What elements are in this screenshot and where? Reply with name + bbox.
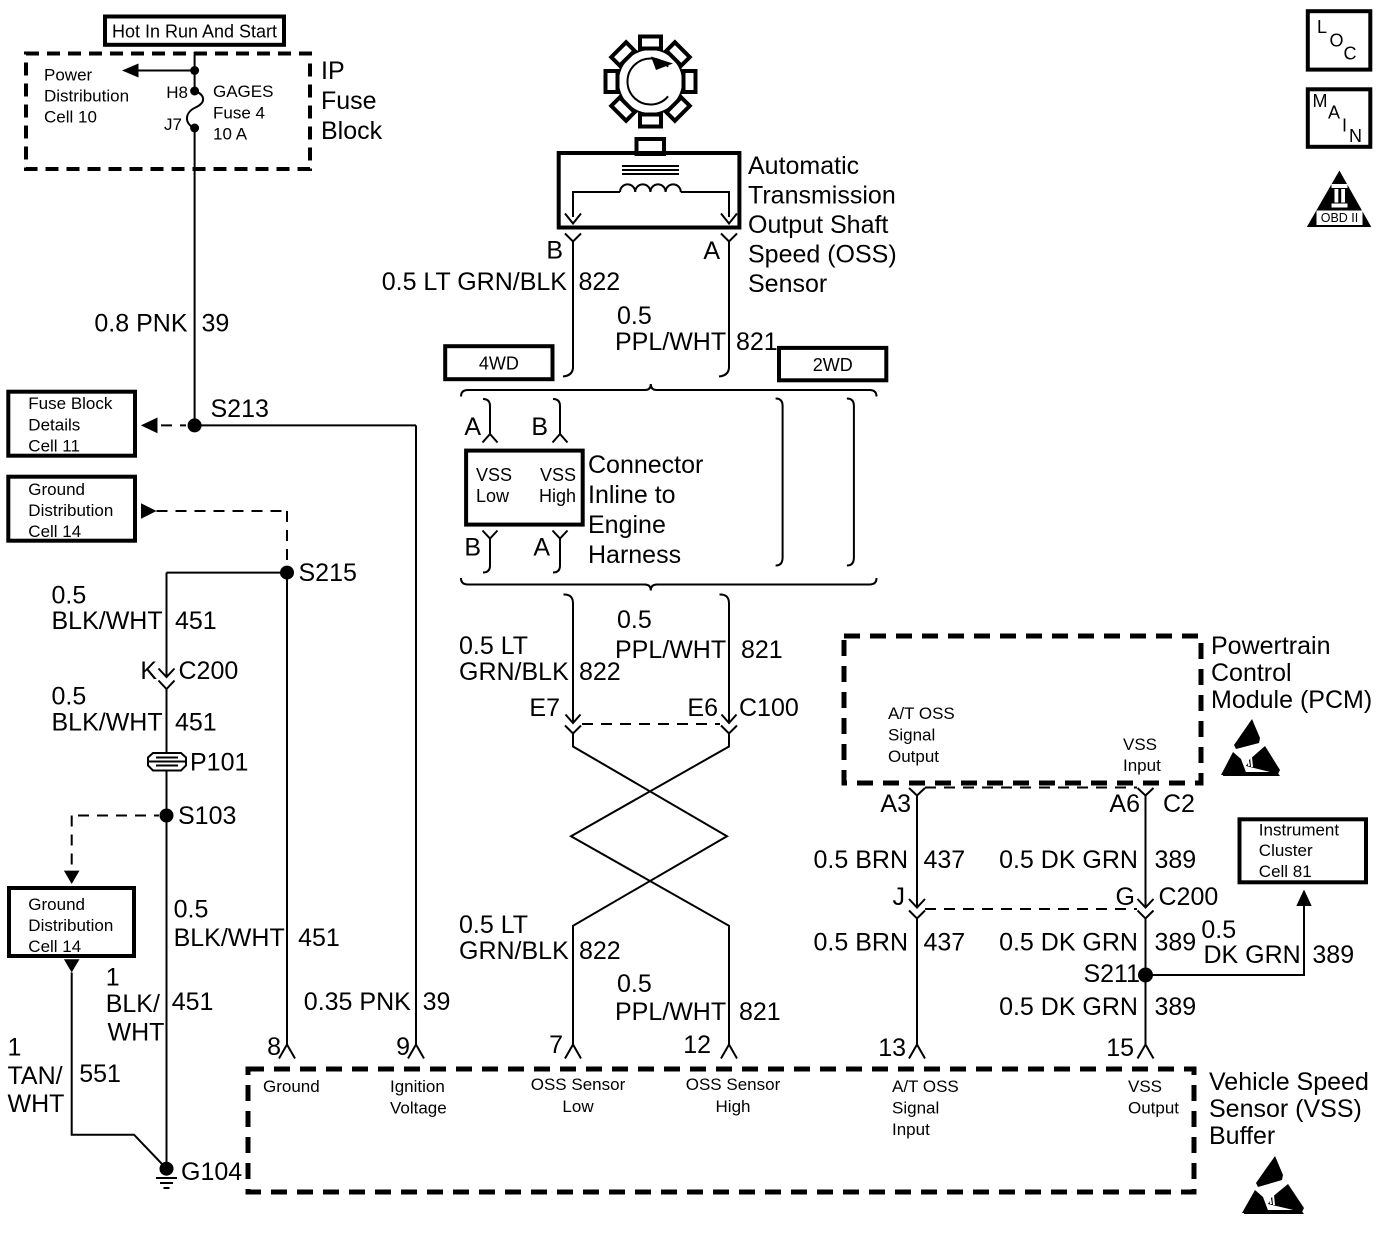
svg-text:Speed (OSS): Speed (OSS) [748, 241, 897, 269]
svg-text:A: A [703, 237, 720, 265]
brace upper (connector group) [461, 384, 877, 397]
svg-text:0.5 BRN: 0.5 BRN [814, 929, 908, 957]
svg-text:Voltage: Voltage [390, 1099, 447, 1118]
symbol: LOC page tag [1308, 11, 1371, 69]
wire: 1 TAN/WHT 551 from ground box to G104 [64, 959, 167, 1168]
wire: power distribution arrow [122, 64, 199, 78]
svg-text:Inline to: Inline to [588, 481, 676, 509]
svg-text:N: N [1349, 126, 1362, 146]
label 0.5 DK GRN 389 (upper) [999, 846, 1196, 874]
svg-text:G104: G104 [181, 1158, 242, 1186]
svg-text:Output Shaft: Output Shaft [748, 211, 888, 239]
brace lower (connector group) [461, 578, 877, 591]
node: A/T OSS Signal Output label [888, 704, 955, 766]
svg-text:BLK/WHT: BLK/WHT [52, 708, 163, 736]
svg-text:Transmission: Transmission [748, 182, 896, 210]
svg-text:OBD II: OBD II [1321, 211, 1359, 225]
node: Power Distribution Cell 10 [44, 66, 129, 127]
svg-text:Harness: Harness [588, 541, 681, 569]
OSS sensor shaft stub [637, 139, 665, 154]
symbol: OBD II triangle [1307, 171, 1372, 228]
svg-text:I: I [1342, 116, 1347, 136]
svg-text:WHT: WHT [108, 1018, 165, 1046]
svg-text:A: A [533, 534, 550, 562]
svg-text:389: 389 [1155, 929, 1197, 957]
connector bar B (4WD lower left) [464, 531, 497, 573]
wire: S215 down to pin 8 [286, 573, 288, 1045]
svg-text:389: 389 [1312, 941, 1354, 969]
svg-text:0.5: 0.5 [617, 606, 652, 634]
node: 4WD tag box [445, 346, 552, 379]
node: Powertrain Control Module (PCM) label [1211, 632, 1372, 714]
Powertrain Control Module dashed box [844, 636, 1201, 783]
svg-text:Distribution: Distribution [44, 87, 129, 106]
connector C200 pin K [140, 657, 238, 689]
svg-text:Distribution: Distribution [28, 501, 113, 520]
connector C200 pin J [893, 883, 926, 919]
svg-text:E6: E6 [687, 694, 718, 722]
label 0.5 BLK/WHT 451 (below C200) [52, 683, 217, 737]
pin B [546, 234, 581, 265]
automatic transmission OSS sensor box [559, 153, 740, 228]
fuse F4 GAGES 10A [187, 87, 203, 133]
svg-text:0.5 DK GRN: 0.5 DK GRN [999, 929, 1138, 957]
svg-text:BLK/WHT: BLK/WHT [52, 607, 163, 635]
svg-text:0.5 LT: 0.5 LT [459, 632, 528, 660]
wire: S213 right to ignition voltage feed [195, 424, 416, 426]
svg-text:0.5 DK GRN: 0.5 DK GRN [999, 846, 1138, 874]
connector C100 dashed interface line [582, 723, 720, 725]
svg-text:A: A [1328, 103, 1340, 123]
svg-text:C100: C100 [739, 694, 799, 722]
svg-text:437: 437 [924, 929, 966, 957]
node: Fuse Block Details Cell 11 box [8, 392, 135, 456]
wire 0.8 PNK 39 [194, 128, 196, 425]
node: IP Fuse Block label [321, 57, 383, 145]
svg-text:0.5: 0.5 [617, 970, 652, 998]
svg-text:Buffer: Buffer [1209, 1122, 1275, 1150]
wire: S103 down 0.5 BLK/WHT 451 to G104 [166, 816, 168, 1169]
wire: S103 dashed to ground distribution cell 14 (lower) [64, 816, 159, 885]
svg-text:B: B [531, 413, 548, 441]
svg-text:VSS: VSS [1123, 735, 1157, 754]
svg-text:GRN/BLK: GRN/BLK [459, 658, 569, 686]
svg-text:A/T OSS: A/T OSS [892, 1077, 959, 1096]
svg-text:WHT: WHT [8, 1090, 65, 1118]
svg-text:7: 7 [549, 1031, 563, 1059]
svg-text:1: 1 [8, 1034, 22, 1062]
node: Hot In Run And Start box [105, 17, 284, 45]
svg-text:Low: Low [562, 1097, 594, 1116]
connector bar (2WD passthrough right) [847, 399, 854, 566]
label 0.5 PPL/WHT 821 (top) [615, 302, 778, 356]
svg-text:Output: Output [1128, 1099, 1179, 1118]
svg-text:0.5 DK GRN: 0.5 DK GRN [999, 993, 1138, 1021]
svg-text:Block: Block [321, 117, 383, 145]
svg-text:S103: S103 [178, 802, 236, 830]
svg-text:C200: C200 [1159, 883, 1219, 911]
wire 821 from pin A [719, 242, 729, 377]
wire 389 from G to pin 15 [1145, 919, 1147, 1045]
node: GAGES Fuse 4 10 A label [213, 82, 273, 144]
svg-text:821: 821 [741, 636, 783, 664]
symbol: MAIN page tag [1308, 89, 1371, 147]
label 0.5 PPL/WHT 821 (middle) [615, 606, 783, 664]
svg-text:J7: J7 [164, 115, 182, 134]
esd symbol VSS buffer [1242, 1156, 1304, 1214]
pin 12 [683, 1031, 737, 1059]
svg-text:S211: S211 [1083, 960, 1140, 988]
svg-text:Hot In Run And Start: Hot In Run And Start [112, 22, 277, 42]
svg-text:S213: S213 [211, 395, 269, 423]
connector bar (2WD passthrough left) [776, 399, 783, 566]
svg-text:Vehicle Speed: Vehicle Speed [1209, 1068, 1369, 1096]
svg-text:TAN/: TAN/ [8, 1062, 63, 1090]
node: Automatic Transmission OSS Sensor label [748, 152, 897, 298]
svg-text:821: 821 [736, 328, 778, 356]
svg-text:39: 39 [202, 310, 230, 338]
OSS sensor core [622, 166, 679, 174]
svg-text:Fuse Block: Fuse Block [28, 394, 113, 413]
wire 821 below connector [720, 594, 730, 722]
svg-text:Ground: Ground [28, 895, 85, 914]
svg-text:Sensor: Sensor [748, 270, 827, 298]
label 0.8 PNK 39 [94, 310, 229, 338]
node S213 [188, 395, 269, 432]
wire: S213 to fuse block details (dashed arrow) [141, 418, 186, 434]
svg-text:B: B [464, 534, 481, 562]
svg-text:0.5 LT GRN/BLK: 0.5 LT GRN/BLK [382, 268, 568, 296]
svg-text:Automatic: Automatic [748, 152, 859, 180]
label 0.35 PNK 39 [304, 988, 451, 1016]
wire: S211 branch to instrument cluster [1146, 890, 1312, 976]
svg-text:IP: IP [321, 57, 345, 85]
svg-text:G: G [1116, 883, 1135, 911]
svg-text:E7: E7 [529, 694, 560, 722]
wire 822 crossover to pin 7 [573, 734, 727, 1045]
wire: hot feed into fuse block [194, 52, 196, 91]
label 0.5 PPL/WHT 821 (bottom) [615, 970, 781, 1026]
wire: S215 left branch [167, 572, 288, 574]
svg-text:Connector: Connector [588, 451, 703, 479]
pin 8 [267, 1033, 295, 1061]
label 0.5 LT GRN/BLK 822 (bottom) [459, 911, 621, 965]
svg-text:4WD: 4WD [479, 354, 519, 374]
svg-text:C200: C200 [179, 657, 239, 685]
gear symbol (output shaft) [606, 37, 696, 127]
svg-text:451: 451 [175, 607, 217, 635]
svg-text:Cluster: Cluster [1259, 841, 1313, 860]
connector bar A (4WD lower right) [533, 531, 567, 573]
svg-text:Instrument: Instrument [1259, 820, 1340, 839]
svg-text:GRN/BLK: GRN/BLK [459, 937, 569, 965]
svg-text:Fuse 4: Fuse 4 [213, 103, 265, 122]
label 1 TAN/WHT 551 [8, 1034, 121, 1119]
node: VSS Low / VSS High box [466, 451, 583, 525]
IP Fuse Block dashed box [26, 54, 310, 170]
connector C2 dashed interface line [925, 787, 1137, 789]
svg-text:0.8 PNK: 0.8 PNK [94, 310, 187, 338]
svg-text:Power: Power [44, 66, 93, 85]
svg-text:0.5: 0.5 [174, 896, 209, 924]
wire: 0.5 BLK/WHT 451 down to C200 [166, 573, 168, 676]
esd symbol PCM [1221, 719, 1280, 776]
svg-text:DK GRN: DK GRN [1204, 941, 1301, 969]
svg-text:BLK/: BLK/ [106, 990, 160, 1018]
pin 15 [1106, 1034, 1153, 1062]
node: Ignition Voltage pin label [390, 1077, 447, 1118]
svg-text:O: O [1330, 31, 1344, 51]
svg-text:L: L [1317, 17, 1327, 37]
svg-text:M: M [1313, 91, 1328, 111]
svg-text:High: High [539, 486, 576, 506]
OSS sensor coil [620, 184, 681, 192]
svg-text:Ground: Ground [28, 480, 85, 499]
svg-text:0.35 PNK: 0.35 PNK [304, 988, 411, 1016]
svg-text:0.5 LT: 0.5 LT [459, 911, 528, 939]
label 0.5 BRN 437 (lower) [814, 929, 966, 957]
label 0.5 BLK/WHT 451 (pin 8 wire) [174, 896, 340, 952]
svg-text:PPL/WHT: PPL/WHT [615, 998, 726, 1026]
wire: ground distribution dashed to S215 [141, 503, 287, 566]
connector bar B (4WD upper right) [531, 399, 567, 443]
svg-text:BLK/WHT: BLK/WHT [174, 924, 285, 952]
svg-text:Control: Control [1211, 659, 1292, 687]
svg-text:A: A [464, 413, 481, 441]
svg-text:Fuse: Fuse [321, 87, 377, 115]
wire 437 from A3 to J [916, 796, 918, 907]
grommet P101 [148, 749, 248, 777]
ground G104 [156, 1158, 242, 1188]
svg-text:1: 1 [106, 964, 120, 992]
svg-text:821: 821 [739, 998, 781, 1026]
connector bar A (4WD upper left) [464, 399, 497, 443]
svg-text:Cell 14: Cell 14 [28, 522, 81, 541]
svg-text:0.5: 0.5 [52, 683, 87, 711]
node: 2WD tag box [779, 348, 886, 380]
svg-text:Cell 10: Cell 10 [44, 108, 97, 127]
svg-text:OSS Sensor: OSS Sensor [531, 1075, 626, 1094]
wire: P101 to S103 [166, 771, 168, 816]
wire: ignition voltage vertical 0.35 PNK 39 [415, 425, 417, 1044]
svg-text:389: 389 [1155, 846, 1197, 874]
svg-text:Ground: Ground [263, 1077, 320, 1096]
connector C200 dashed interface line [925, 908, 1137, 910]
svg-text:451: 451 [298, 924, 340, 952]
svg-text:Module (PCM): Module (PCM) [1211, 686, 1372, 714]
svg-text:15: 15 [1106, 1034, 1134, 1062]
node: Vehicle Speed Sensor (VSS) Buffer label [1209, 1068, 1369, 1150]
OSS coil lead left to pin B [565, 192, 620, 224]
svg-text:High: High [716, 1097, 751, 1116]
wire 389 from A6 to G [1145, 796, 1147, 907]
pin 13 [878, 1034, 925, 1062]
label 0.5 LT GRN/BLK 822 (top) [382, 268, 621, 296]
connector C200 pin G [1116, 883, 1219, 919]
svg-text:Details: Details [28, 416, 80, 435]
wire 822 from pin B [563, 242, 573, 377]
svg-text:Ignition: Ignition [390, 1077, 445, 1096]
connector C2 pin A6 [1109, 788, 1195, 818]
svg-text:551: 551 [79, 1060, 121, 1088]
connector C100 pin E6 [687, 694, 798, 734]
svg-text:VSS: VSS [540, 465, 576, 485]
svg-text:0.5: 0.5 [1201, 916, 1236, 944]
node: VSS Input label [1123, 735, 1161, 775]
svg-text:39: 39 [423, 988, 451, 1016]
svg-text:A6: A6 [1109, 790, 1140, 818]
svg-text:Engine: Engine [588, 511, 666, 539]
svg-text:K: K [140, 657, 157, 685]
svg-text:S215: S215 [299, 559, 357, 587]
pin 7 [549, 1031, 581, 1059]
node: Ground Distribution Cell 14 box (lower) [9, 888, 134, 956]
pin 9 [396, 1033, 424, 1061]
svg-text:P101: P101 [190, 749, 248, 777]
label 0.5 DK GRN 389 (middle) [999, 929, 1196, 957]
connector C100 pin E7 [529, 694, 581, 734]
svg-text:Cell 14: Cell 14 [28, 937, 81, 956]
node: OSS Sensor High pin label [686, 1075, 781, 1116]
wire 822 below connector [564, 594, 574, 722]
svg-text:451: 451 [175, 708, 217, 736]
svg-text:A3: A3 [880, 790, 911, 818]
Vehicle Speed Sensor buffer dashed box [248, 1069, 1194, 1192]
svg-text:C: C [1344, 44, 1357, 64]
svg-text:822: 822 [579, 937, 621, 965]
svg-text:A/T OSS: A/T OSS [888, 704, 955, 723]
svg-text:0.5: 0.5 [617, 302, 652, 330]
label 0.5 BLK/WHT 451 (above C200) [52, 581, 217, 635]
svg-text:J: J [893, 883, 906, 911]
svg-text:Low: Low [476, 486, 510, 506]
svg-text:PPL/WHT: PPL/WHT [615, 328, 726, 356]
svg-text:Sensor (VSS): Sensor (VSS) [1209, 1095, 1362, 1123]
svg-text:10 A: 10 A [213, 125, 248, 144]
node: Instrument Cluster Cell 81 box [1240, 819, 1367, 882]
node: VSS Output pin label [1128, 1077, 1179, 1118]
node: Ground Distribution Cell 14 box (upper) [8, 477, 135, 541]
label 0.5 LT GRN/BLK 822 (middle) [459, 632, 621, 686]
svg-text:2WD: 2WD [813, 355, 853, 375]
svg-text:0.5: 0.5 [52, 581, 87, 609]
svg-text:OSS Sensor: OSS Sensor [686, 1075, 781, 1094]
svg-text:PPL/WHT: PPL/WHT [615, 636, 726, 664]
svg-text:12: 12 [683, 1031, 711, 1059]
svg-text:13: 13 [878, 1034, 906, 1062]
svg-text:VSS: VSS [476, 465, 512, 485]
node S215 [280, 559, 357, 587]
OSS coil lead right to pin A [681, 192, 737, 224]
svg-text:Signal: Signal [892, 1099, 939, 1118]
connector C2 pin A3 [880, 788, 925, 818]
label 1 BLK/WHT 451 [106, 964, 214, 1047]
label 0.5 DK GRN 389 (below S211) [999, 993, 1196, 1021]
svg-text:Signal: Signal [888, 726, 935, 745]
svg-text:B: B [546, 237, 563, 265]
svg-text:Distribution: Distribution [28, 916, 113, 935]
node S103 [160, 802, 237, 830]
label 0.5 BRN 437 (upper) [814, 846, 966, 874]
svg-text:GAGES: GAGES [213, 82, 273, 101]
svg-text:0.5 BRN: 0.5 BRN [814, 846, 908, 874]
svg-text:Input: Input [892, 1120, 930, 1139]
svg-text:389: 389 [1155, 993, 1197, 1021]
svg-text:Output: Output [888, 747, 939, 766]
wire 437 from J to pin 13 [916, 919, 918, 1045]
node: Connector Inline to Engine Harness label [588, 451, 703, 569]
svg-text:Cell 81: Cell 81 [1259, 862, 1312, 881]
node S211 [1083, 960, 1153, 988]
svg-text:437: 437 [924, 846, 966, 874]
wire 821 crossover to pin 12 [571, 734, 729, 1045]
svg-text:VSS: VSS [1128, 1077, 1162, 1096]
svg-text:822: 822 [579, 268, 621, 296]
wire: 0.5 BLK/WHT 451 below C200 [166, 689, 168, 753]
pin A [703, 234, 737, 266]
label 0.5 DK GRN 389 (branch) [1201, 916, 1354, 969]
svg-text:Input: Input [1123, 756, 1161, 775]
svg-text:451: 451 [172, 988, 214, 1016]
node: OSS Sensor Low pin label [531, 1075, 626, 1116]
svg-text:H8: H8 [166, 83, 188, 102]
svg-text:Powertrain: Powertrain [1211, 632, 1331, 660]
svg-text:Cell 11: Cell 11 [28, 437, 80, 456]
node: A/T OSS Signal Input pin label [892, 1077, 959, 1139]
svg-text:C2: C2 [1163, 790, 1195, 818]
